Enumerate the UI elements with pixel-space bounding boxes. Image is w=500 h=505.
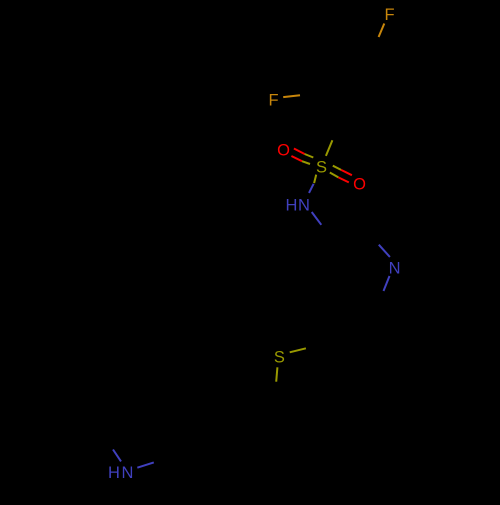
svg-text:S: S	[316, 159, 327, 177]
atom N3 (indole NH)	[108, 464, 133, 482]
bond C-F1 (fluorine half)	[379, 24, 385, 38]
bond S1=O2 lower line	[330, 173, 349, 183]
bond CH2-N2 (nitrogen half)	[379, 245, 390, 257]
bond N1-CH2 (nitrogen half)	[312, 212, 322, 225]
svg-text:H: H	[285, 197, 297, 215]
bond S2-C right (sulfur half)	[290, 348, 306, 352]
atom N1 (sulfonamide NH)	[285, 197, 310, 215]
svg-text:N: N	[298, 197, 310, 215]
svg-text:F: F	[269, 92, 279, 110]
svg-text:N: N	[121, 464, 133, 482]
bond N2-C (nitrogen half, lower-left)	[384, 276, 390, 291]
bond S1=O2 upper line	[333, 166, 352, 176]
svg-text:F: F	[385, 6, 395, 24]
bond C-N3 upper-left (nitrogen half)	[113, 450, 121, 462]
svg-text:N: N	[389, 259, 401, 277]
bond S1=O1 upper line	[294, 149, 313, 158]
svg-text:S: S	[274, 348, 285, 366]
bond S1=O1 lower line	[291, 156, 310, 164]
bond S1-C(aryl) (sulfur half)	[326, 140, 333, 156]
bond S2-C down (sulfur half)	[276, 367, 277, 381]
svg-text:H: H	[108, 464, 120, 482]
svg-text:O: O	[277, 142, 290, 160]
bond C-F2 (fluorine half)	[283, 95, 300, 97]
bond S1-N1	[309, 175, 316, 193]
svg-text:O: O	[353, 176, 366, 194]
bond N3-C right (nitrogen half)	[137, 462, 154, 467]
